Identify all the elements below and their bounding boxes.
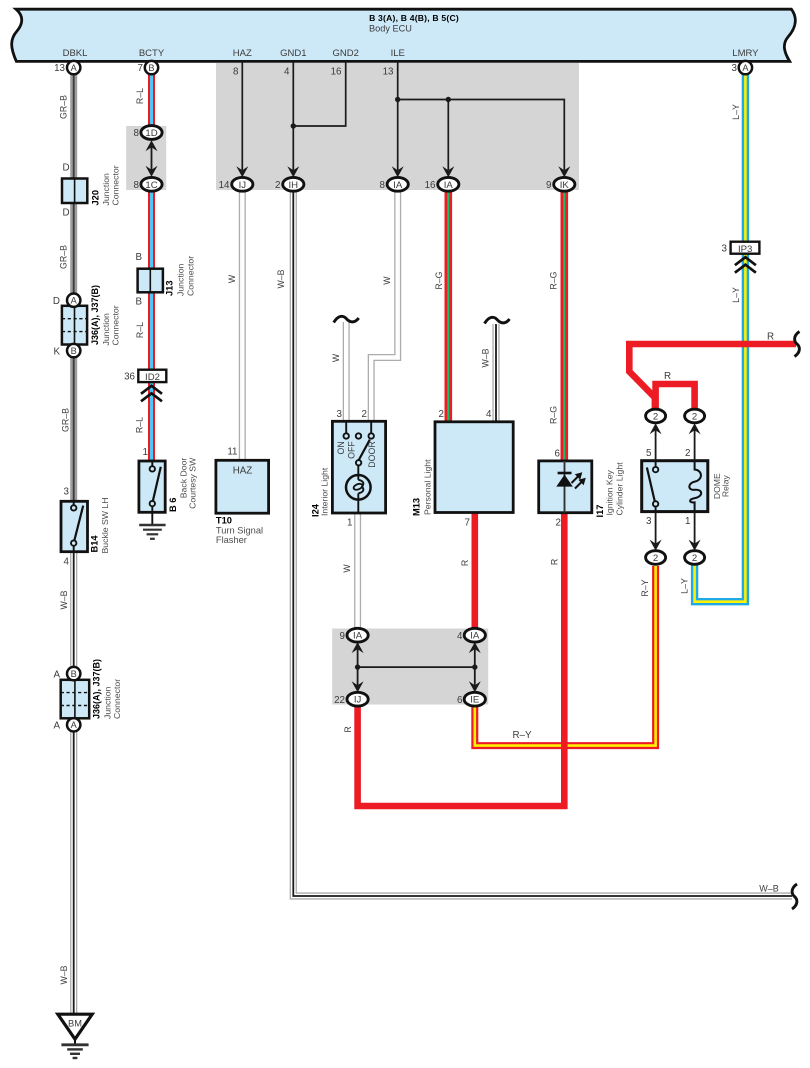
svg-text:B: B <box>71 669 77 679</box>
svg-text:A: A <box>742 63 749 73</box>
connector IA 8 <box>387 177 408 191</box>
switch and bulb symbol inside I24 <box>346 421 371 513</box>
svg-text:Ignition Key: Ignition Key <box>605 469 615 515</box>
svg-text:Courtesy SW: Courtesy SW <box>188 457 198 509</box>
wire link between middle connectors <box>358 666 475 668</box>
svg-text:7: 7 <box>138 63 143 74</box>
switch symbol B6 <box>152 461 161 512</box>
svg-text:W: W <box>331 353 341 362</box>
wire R DOME relay to right edge <box>629 344 796 411</box>
svg-text:B: B <box>135 252 142 263</box>
shaded region 1D-1C connector block <box>126 126 166 190</box>
svg-text:2: 2 <box>556 518 561 529</box>
svg-text:BCTY: BCTY <box>139 48 165 59</box>
wire W connector IJ to T10 HAZ <box>239 190 246 462</box>
connector IE 6 <box>464 692 485 706</box>
svg-text:J36(A), J37(B): J36(A), J37(B) <box>92 659 102 719</box>
svg-text:Body ECU: Body ECU <box>369 24 412 34</box>
lamp I17 Ignition Key Cylinder Light <box>539 461 592 513</box>
junction ILE branch <box>446 97 451 102</box>
tilde continuation above I24 pin 3 <box>334 316 359 322</box>
connector circle B of J36 upper <box>67 344 80 357</box>
svg-text:1: 1 <box>685 516 690 527</box>
svg-text:W: W <box>382 276 392 285</box>
connector 2 below DOME pin 1 <box>685 551 705 565</box>
svg-text:3: 3 <box>337 409 343 420</box>
connector circle A at DBKL <box>67 61 80 74</box>
svg-text:3: 3 <box>722 244 728 255</box>
svg-text:BM: BM <box>68 1019 82 1029</box>
svg-text:J20: J20 <box>91 190 101 206</box>
svg-text:4: 4 <box>284 67 290 78</box>
svg-text:GND1: GND1 <box>280 48 306 59</box>
svg-text:4: 4 <box>457 631 463 642</box>
lamp M13 Personal Light <box>435 422 513 513</box>
shaded region top connector block <box>216 63 579 190</box>
Body ECU banner B 3(A), B 4(B), B 5(C) <box>12 9 796 61</box>
svg-text:Personal Light: Personal Light <box>423 459 433 515</box>
svg-text:IA: IA <box>393 180 403 191</box>
connector circle A at LMRY <box>739 61 752 74</box>
relay DOME <box>642 461 708 512</box>
svg-text:IH: IH <box>289 180 299 191</box>
svg-text:A: A <box>71 296 78 306</box>
svg-text:HAZ: HAZ <box>233 48 252 59</box>
arrowhead into DOME output connector left <box>650 423 662 434</box>
svg-text:1: 1 <box>143 447 148 458</box>
wire L-Y IP3 to DOME relay pin 1 <box>695 253 746 602</box>
svg-text:Junction: Junction <box>101 173 111 206</box>
wire DOME pin 5 to connector <box>655 427 657 461</box>
arrowhead into IK <box>558 166 570 177</box>
LED symbol inside I17 <box>556 461 586 513</box>
svg-text:3: 3 <box>646 516 652 527</box>
wire R-G connector IK to I17 pin 6 <box>560 190 568 462</box>
wire W connector IA to I24 pin 2 <box>371 190 398 422</box>
lamp I24 Interior Light <box>332 421 385 513</box>
wire GND1 pin 4 to connector IH <box>292 62 294 171</box>
svg-text:Interior Light: Interior Light <box>319 467 329 516</box>
svg-text:7: 7 <box>465 518 470 529</box>
arrowhead into connector below DOME pin 3 <box>650 540 662 551</box>
svg-text:R–L: R–L <box>135 417 145 433</box>
svg-text:J36(A), J37(B): J36(A), J37(B) <box>90 285 100 345</box>
svg-text:Junction: Junction <box>103 686 113 719</box>
wire W-B B14 to J36 lower <box>70 551 77 668</box>
chevrons below IP3 <box>735 257 756 273</box>
connector 2 above DOME pin 5 <box>646 409 666 423</box>
svg-text:1D: 1D <box>145 128 157 139</box>
junction connector J13 <box>138 269 163 293</box>
ground below B6 <box>139 512 165 539</box>
wire ILE branch to connector IK <box>398 100 565 171</box>
svg-text:2: 2 <box>362 409 367 420</box>
svg-text:W–B: W–B <box>59 590 69 609</box>
wire link between 1D and 1C <box>151 146 153 172</box>
svg-text:R–Y: R–Y <box>640 579 650 596</box>
wire GR-B J20 to J36(A) <box>70 202 77 296</box>
tilde continuation above M13 pin 4 <box>485 317 510 323</box>
svg-text:2: 2 <box>685 448 690 459</box>
wire link IA9 to IJ22 <box>357 645 359 689</box>
svg-text:ID2: ID2 <box>145 372 160 383</box>
svg-text:Junction: Junction <box>176 263 186 296</box>
junction connector J20 <box>62 179 87 204</box>
svg-text:GND2: GND2 <box>332 48 358 59</box>
svg-text:IJ: IJ <box>354 695 362 706</box>
junction GND1/GND2 <box>291 123 296 128</box>
svg-text:2: 2 <box>275 180 280 191</box>
wire GR-B DBKL to J20 <box>70 73 77 179</box>
svg-text:W: W <box>227 274 237 283</box>
continuation mark at W-B wire right edge <box>792 884 797 909</box>
svg-text:A: A <box>71 720 78 730</box>
svg-text:B 3(A), B 4(B), B 5(C): B 3(A), B 4(B), B 5(C) <box>369 13 459 23</box>
svg-text:3: 3 <box>732 63 738 74</box>
junction connector J36(A) J37(B) upper <box>62 306 87 345</box>
svg-text:8: 8 <box>134 180 140 191</box>
svg-text:4: 4 <box>486 409 492 420</box>
svg-text:W–B: W–B <box>276 269 286 288</box>
svg-text:8: 8 <box>233 67 239 78</box>
connector 2 below DOME pin 3 <box>646 551 666 565</box>
wire W-B tilde end to M13 pin 4 <box>492 324 499 423</box>
wire R-G connector IA 16 to M13 pin 2 <box>444 190 452 423</box>
connector IA 16 <box>438 177 459 191</box>
svg-text:GR–B: GR–B <box>61 408 71 432</box>
wire W-B connector IH to right edge <box>293 190 792 896</box>
svg-text:R: R <box>460 560 470 566</box>
svg-text:Flasher: Flasher <box>216 535 247 545</box>
wire R between DOME relay output connectors <box>656 384 695 411</box>
svg-text:K: K <box>53 347 60 358</box>
svg-text:2: 2 <box>653 412 658 423</box>
svg-text:M13: M13 <box>412 498 422 516</box>
continuation mark at R wire right edge <box>795 332 800 357</box>
relay T10 Turn Signal Flasher <box>216 460 269 513</box>
connector ID2 <box>138 370 166 383</box>
wire W-B J36 to ground BM <box>70 730 77 1015</box>
svg-text:D: D <box>62 163 69 174</box>
svg-text:1C: 1C <box>145 180 157 191</box>
svg-text:I17: I17 <box>595 505 605 518</box>
arrowhead into IE 6 <box>469 681 481 692</box>
switch B6 Back Door Courtesy SW <box>139 461 165 512</box>
svg-text:IE: IE <box>470 695 479 706</box>
svg-text:LMRY: LMRY <box>732 48 759 59</box>
svg-text:36: 36 <box>124 372 135 383</box>
svg-text:3: 3 <box>64 487 70 498</box>
connector circle A of J36 upper <box>67 294 80 307</box>
svg-text:9: 9 <box>546 180 551 191</box>
switch symbol B14 <box>74 501 84 551</box>
connector IH <box>283 177 304 191</box>
svg-text:IA: IA <box>470 631 480 642</box>
wire W tilde end to I24 pin 3 <box>343 322 350 422</box>
svg-text:HAZ: HAZ <box>233 466 253 477</box>
connector IK <box>554 177 575 191</box>
svg-text:IK: IK <box>560 180 570 191</box>
switch B14 Buckle SW LH <box>61 501 88 551</box>
ground BM <box>58 1014 92 1058</box>
connector IJ 22 <box>347 692 368 706</box>
svg-text:IA: IA <box>444 180 454 191</box>
svg-text:D: D <box>62 208 69 219</box>
wire ILE pin 13 down to connector IA <box>397 62 399 171</box>
svg-text:R–G: R–G <box>434 271 444 289</box>
svg-text:R: R <box>343 726 353 732</box>
connector 2 above DOME pin 2 <box>685 409 705 423</box>
svg-text:13: 13 <box>383 67 394 78</box>
svg-text:ON: ON <box>336 441 346 454</box>
svg-text:D: D <box>53 296 60 307</box>
svg-text:8: 8 <box>380 180 386 191</box>
arrowhead into 1D <box>146 140 158 151</box>
svg-text:Connector: Connector <box>185 256 195 296</box>
svg-text:B14: B14 <box>90 535 100 553</box>
svg-text:GR–B: GR–B <box>59 95 69 119</box>
svg-text:R–G: R–G <box>549 271 559 289</box>
wire link IA4 to IE6 <box>474 645 476 689</box>
wire GR-B J36 to B14 <box>70 356 77 502</box>
connector IJ <box>232 177 253 191</box>
svg-text:IP3: IP3 <box>738 244 752 255</box>
svg-text:B: B <box>135 297 142 308</box>
wire DOME pin 1 to connector <box>694 512 696 547</box>
wire R-L ID2 to B6 <box>148 381 155 462</box>
svg-text:2: 2 <box>692 412 697 423</box>
svg-text:DBKL: DBKL <box>63 48 88 59</box>
svg-text:22: 22 <box>334 695 345 706</box>
svg-text:W–B: W–B <box>759 884 779 894</box>
svg-text:5: 5 <box>646 448 652 459</box>
wire R-L 1C to J13 <box>148 190 155 270</box>
svg-text:Connector: Connector <box>111 165 121 205</box>
arrowhead into IJ 22 <box>352 681 364 692</box>
svg-text:Buckle SW LH: Buckle SW LH <box>100 497 110 553</box>
svg-text:R–Y: R–Y <box>512 730 532 741</box>
svg-text:R–G: R–G <box>549 406 559 424</box>
svg-text:R–L: R–L <box>135 322 145 338</box>
svg-text:R: R <box>767 332 774 343</box>
wire L-Y LMRY to IP3 <box>742 73 749 243</box>
svg-text:1: 1 <box>347 518 352 529</box>
svg-text:IA: IA <box>353 631 363 642</box>
svg-text:Connector: Connector <box>111 305 121 345</box>
junction ILE main <box>395 97 400 102</box>
svg-text:B 6: B 6 <box>168 498 178 512</box>
svg-text:2: 2 <box>653 553 658 564</box>
wire ILE branch to connector IA 16 <box>447 100 449 171</box>
wire R M13 pin 7 to connector IA 4 <box>471 511 478 630</box>
coil symbol inside DOME relay <box>689 461 701 512</box>
svg-text:Junction: Junction <box>101 313 111 346</box>
wire W I24 pin 1 to connector IA 9 <box>354 512 361 630</box>
arrowhead into IA 16 <box>442 166 454 177</box>
svg-text:9: 9 <box>340 631 345 642</box>
svg-text:A: A <box>71 63 78 73</box>
connector IA 9 <box>347 628 368 642</box>
arrowhead into connector below DOME pin 1 <box>689 540 701 551</box>
svg-text:A: A <box>53 670 60 681</box>
svg-text:4: 4 <box>64 557 70 568</box>
connector circle B at BCTY <box>145 61 158 74</box>
arrowhead into DOME output connector right <box>689 423 701 434</box>
svg-text:ILE: ILE <box>391 48 405 59</box>
connector circle B of J36 lower <box>67 667 80 680</box>
shaded region middle connector block IA-IJ-IE <box>332 629 488 705</box>
svg-text:R–L: R–L <box>135 88 145 104</box>
svg-text:L–Y: L–Y <box>731 287 741 303</box>
svg-text:Cylinder Light: Cylinder Light <box>615 462 625 516</box>
svg-text:R: R <box>550 559 560 565</box>
svg-text:2: 2 <box>439 409 444 420</box>
junction at IA4-IE6 link <box>472 664 477 669</box>
svg-text:Relay: Relay <box>721 475 731 498</box>
wire R-L BCTY to connector 1D <box>148 72 155 127</box>
svg-text:W–B: W–B <box>481 348 491 367</box>
arrowhead into IH <box>287 166 299 177</box>
svg-text:A: A <box>53 721 60 732</box>
arrowhead into IJ <box>236 166 248 177</box>
svg-text:16: 16 <box>331 67 342 78</box>
connector circle A of J36 lower <box>67 718 80 731</box>
svg-text:T10: T10 <box>216 516 232 526</box>
svg-text:14: 14 <box>219 180 230 191</box>
svg-text:16: 16 <box>425 180 436 191</box>
connector IA 4 <box>464 628 485 642</box>
svg-text:W–B: W–B <box>59 965 69 984</box>
svg-text:DOOR: DOOR <box>367 441 377 467</box>
wire R-Y connector IE to DOME relay pin 3 <box>475 566 656 746</box>
svg-text:GR–B: GR–B <box>59 245 69 269</box>
svg-text:6: 6 <box>457 695 463 706</box>
connector IP3 <box>731 242 760 255</box>
connector 1C <box>141 177 162 191</box>
svg-text:B: B <box>71 346 77 356</box>
svg-text:B: B <box>148 63 154 73</box>
arrowhead into IA 8 <box>392 166 404 177</box>
wire DOME pin 3 to connector <box>655 512 657 547</box>
svg-text:2: 2 <box>692 553 697 564</box>
svg-text:IJ: IJ <box>239 180 247 191</box>
switch symbol inside DOME relay <box>647 461 656 512</box>
svg-text:11: 11 <box>227 447 237 458</box>
svg-text:6: 6 <box>555 449 561 460</box>
connector 1D <box>141 126 162 140</box>
svg-text:8: 8 <box>134 128 140 139</box>
svg-text:L–Y: L–Y <box>731 104 741 120</box>
svg-text:OFF: OFF <box>347 441 357 459</box>
svg-text:R: R <box>664 371 671 382</box>
arrowhead into 1C <box>146 166 158 177</box>
wire HAZ pin 8 to connector IJ <box>241 62 243 171</box>
chevrons below ID2 <box>141 386 162 402</box>
wire GND2 pin 16 joining GND1 <box>293 62 345 127</box>
svg-text:W: W <box>342 564 352 573</box>
wire R connector IJ to I17 pin 2 <box>358 512 565 807</box>
svg-text:Turn Signal: Turn Signal <box>216 526 263 536</box>
svg-text:L–Y: L–Y <box>680 578 690 594</box>
arrowhead into IA 4 <box>469 642 481 653</box>
wire DOME pin 2 to connector <box>694 427 696 461</box>
junction connector J36(A) J37(B) lower <box>61 680 89 719</box>
wire R-L J13 to ID2 <box>148 291 155 371</box>
arrowhead into IA 9 <box>352 642 364 653</box>
svg-text:13: 13 <box>54 63 65 74</box>
svg-text:Connector: Connector <box>112 679 122 719</box>
svg-text:J13: J13 <box>165 280 175 296</box>
junction at IA9-IJ22 link <box>355 664 360 669</box>
